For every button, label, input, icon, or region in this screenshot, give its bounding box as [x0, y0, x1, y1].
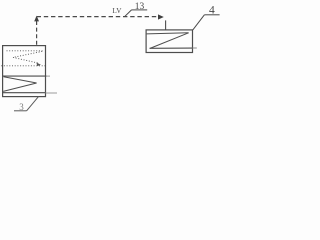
heating element in 4: right stub — [193, 47, 197, 49]
dotted line (lower) in 3 — [1, 65, 45, 67]
dashed riser from box 3 — [36, 21, 38, 46]
underline of label 4 — [204, 14, 219, 16]
solid coil in 3: bottom horizontal — [3, 92, 46, 94]
heating element in 4: bottom line — [150, 47, 193, 49]
leader line of label 3 — [27, 96, 39, 110]
svg-text:13: 13 — [135, 2, 145, 12]
leader line of label 4 — [193, 15, 205, 30]
heating element in 4: diagonal — [150, 33, 189, 49]
solid coil in 3: bottom right stub — [46, 92, 58, 94]
up arrowhead — [34, 16, 39, 22]
solid coil in 3: stub fade — [46, 75, 50, 77]
arrowhead on dotted coil — [36, 63, 41, 67]
solid coil in 3: top horizontal with right stub — [3, 75, 47, 77]
underline of label 13 — [132, 9, 148, 11]
solid coil in 3: upper diagonal — [4, 77, 37, 83]
svg-text:LV: LV — [112, 7, 122, 15]
dashed LV line (horizontal) — [37, 16, 158, 18]
dotted coil in 3: upper diagonal — [13, 51, 42, 57]
solid coil in 3: lower diagonal — [3, 83, 36, 91]
dotted coil in 3: lower diagonal — [13, 57, 39, 63]
vertical stub into box 4 — [165, 20, 167, 30]
heat exchanger 4 (right box) — [146, 30, 192, 53]
right arrowhead — [158, 14, 164, 19]
underline of label 3 — [14, 110, 27, 112]
heat exchanger 3 (left box) — [3, 46, 46, 97]
dotted coil in 3: top horizontal — [7, 50, 43, 52]
leader line of label 13 — [124, 10, 131, 17]
heating element in 4: top line — [147, 33, 189, 34]
